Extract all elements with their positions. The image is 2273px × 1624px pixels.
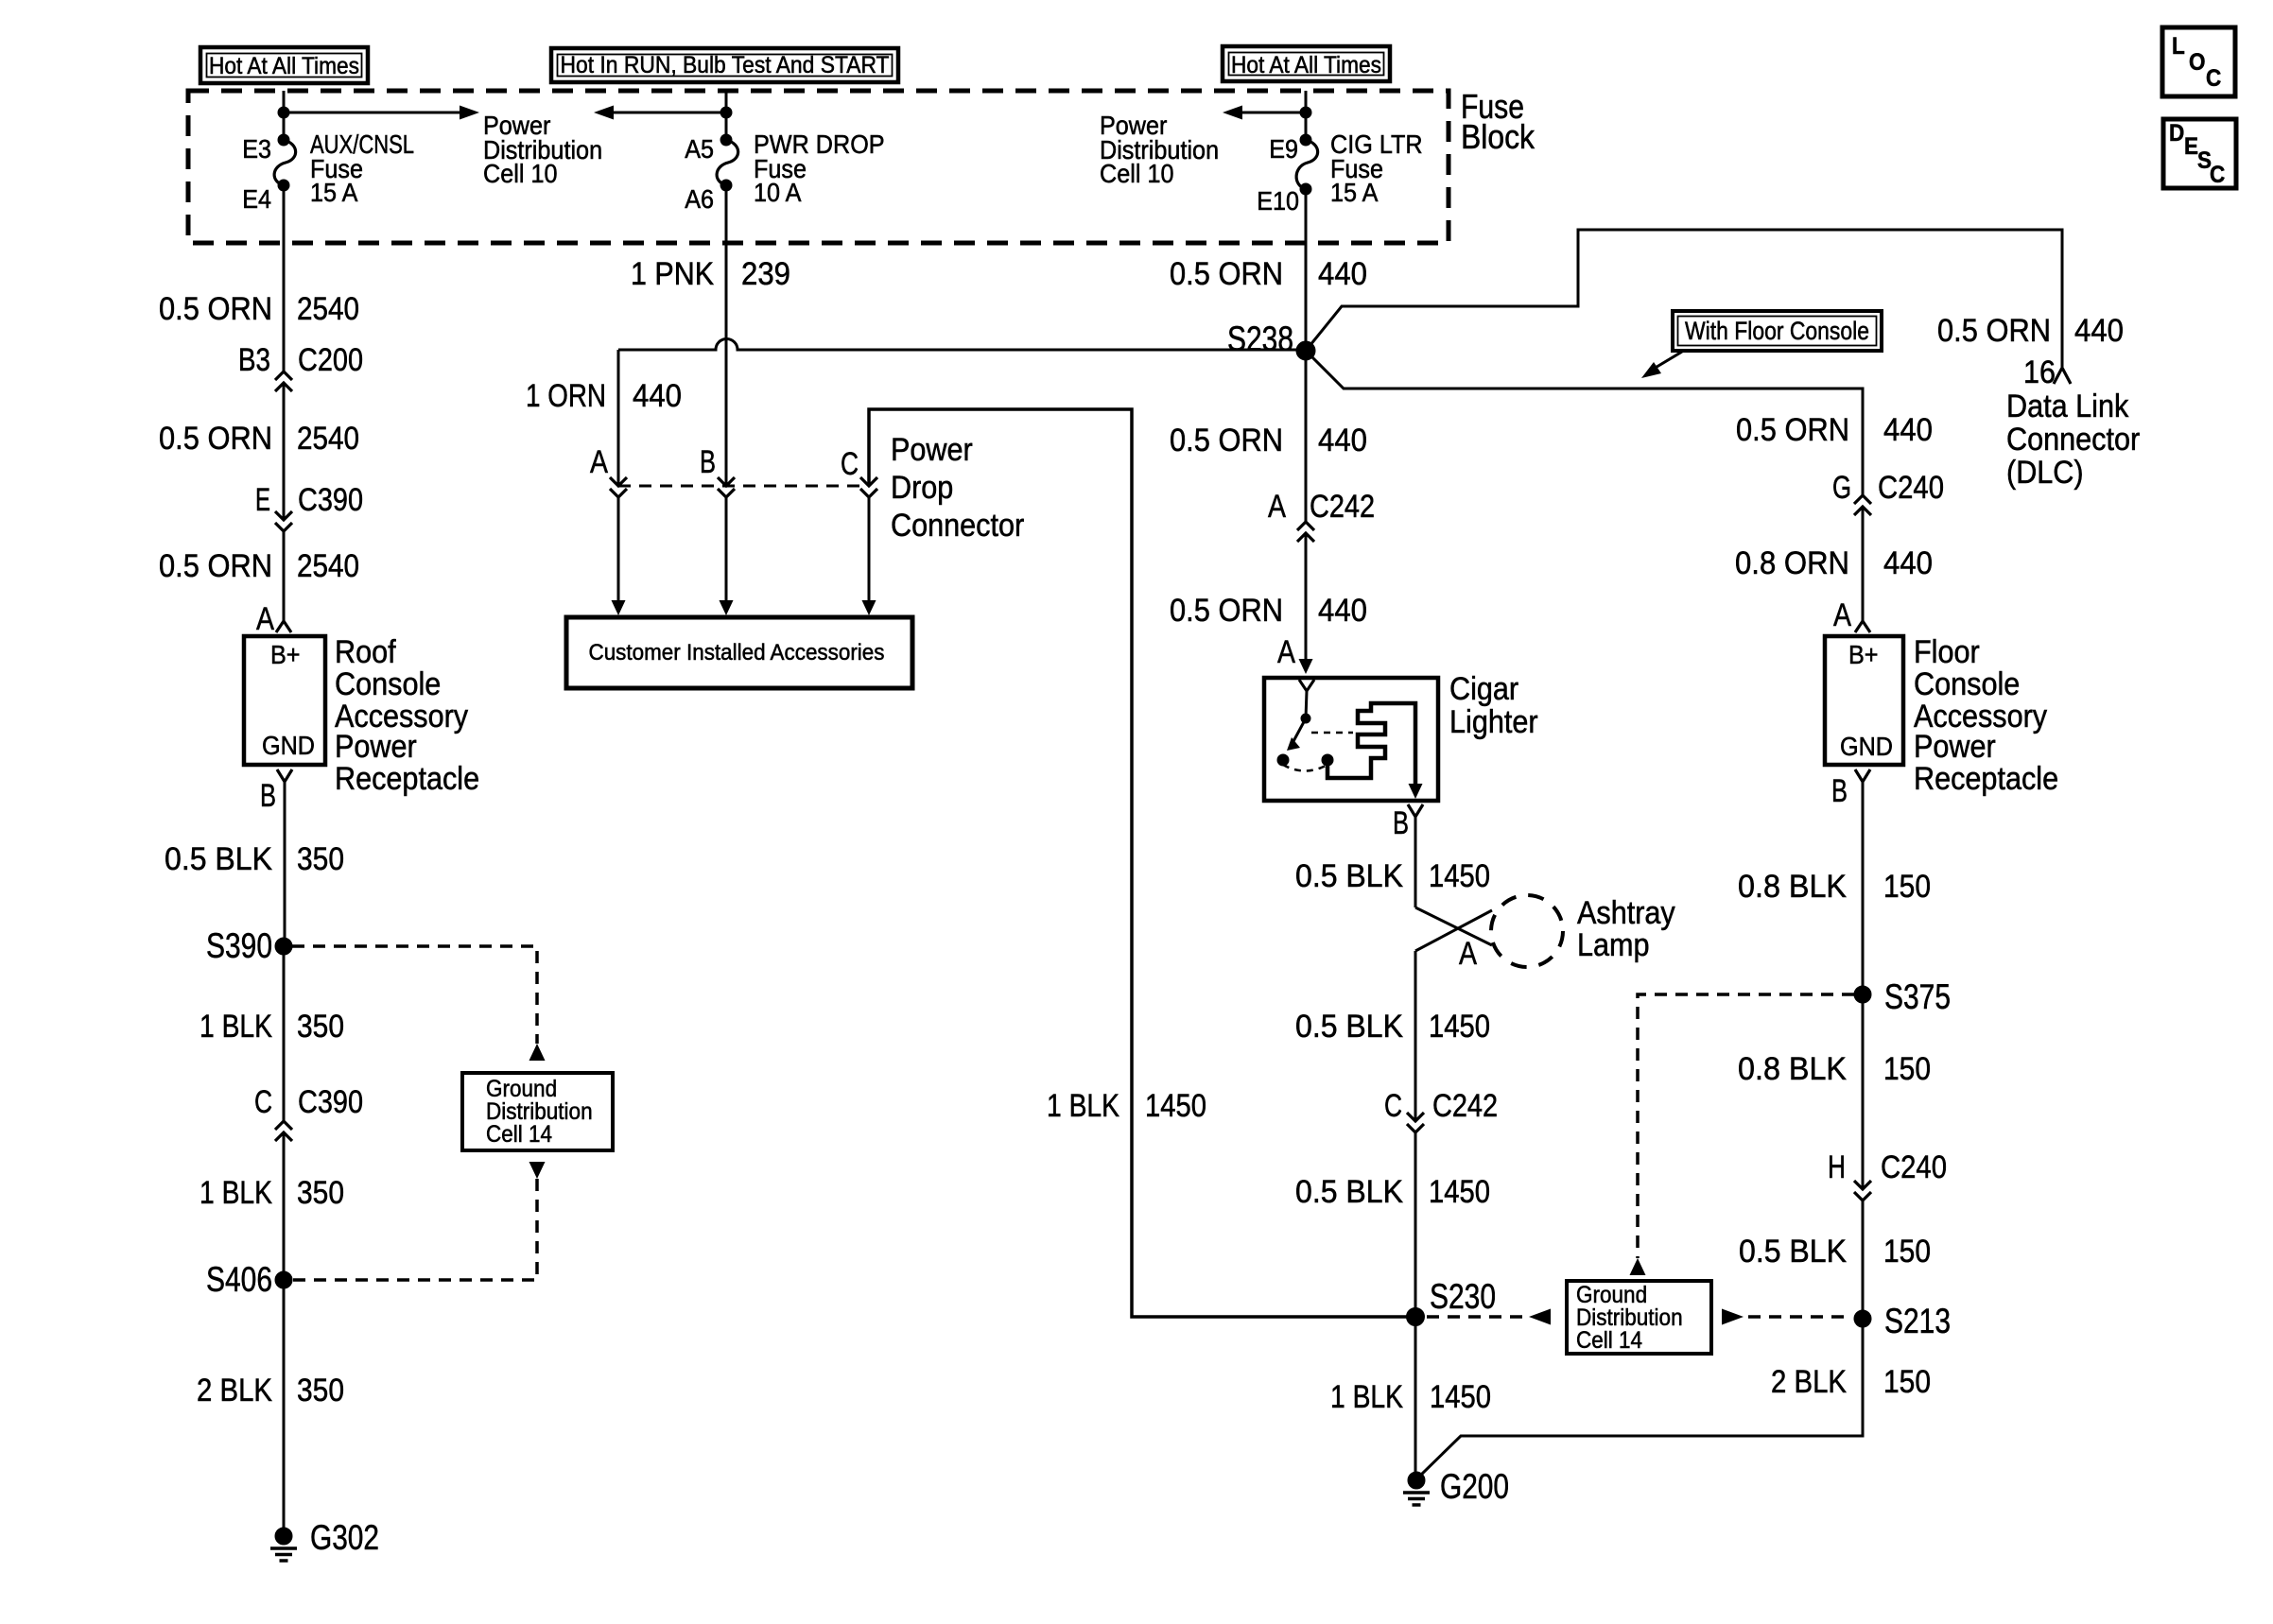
svg-text:A: A xyxy=(1268,489,1286,525)
svg-text:0.8 ORN: 0.8 ORN xyxy=(1735,545,1849,581)
svg-text:1 ORN: 1 ORN xyxy=(526,378,606,414)
wire: With Floor Console branch to C240-G (0.5 ORN 440) xyxy=(1736,412,1933,448)
wire: B drop into Customer Installed Accessories xyxy=(720,497,734,615)
svg-text:B+: B+ xyxy=(270,640,301,669)
svg-text:16: 16 xyxy=(2023,354,2056,390)
reference box: With Floor Console xyxy=(1641,311,1882,378)
svg-text:C: C xyxy=(841,446,859,482)
svg-text:0.5 ORN: 0.5 ORN xyxy=(159,548,272,584)
svg-text:C: C xyxy=(1384,1088,1402,1124)
wire: dashed Ground Distribution to S213 xyxy=(1722,1309,1851,1325)
svg-text:Data Link: Data Link xyxy=(2006,389,2129,424)
label: Floor Console Accessory Power Receptacle xyxy=(1914,634,2058,797)
svg-text:Connector: Connector xyxy=(891,508,1024,544)
svg-text:A: A xyxy=(1833,597,1851,633)
pin A of roof receptacle (male chevron) xyxy=(256,601,291,637)
svg-text:G200: G200 xyxy=(1440,1467,1509,1506)
svg-text:(DLC): (DLC) xyxy=(2006,455,2084,491)
svg-text:Receptacle: Receptacle xyxy=(1914,761,2058,797)
wire: C390-C to S406 (1 BLK 350) xyxy=(200,1132,344,1280)
wire: arrow to Power Distribution (right) xyxy=(284,112,460,114)
label: Cigar Lighter xyxy=(1449,671,1538,740)
svg-text:GND: GND xyxy=(262,731,315,760)
wire: E10 to S238 (0.5 ORN 440) xyxy=(1170,189,1367,351)
switch contact wire xyxy=(1306,691,1307,718)
svg-text:B: B xyxy=(1393,805,1409,841)
svg-text:150: 150 xyxy=(1883,1234,1931,1270)
pin C of Power Drop Connector xyxy=(841,446,877,497)
svg-text:B: B xyxy=(1831,773,1848,809)
reference box: LOC xyxy=(2162,27,2235,96)
svg-text:C: C xyxy=(254,1084,272,1120)
fuse element F3 xyxy=(1296,140,1318,189)
svg-text:350: 350 xyxy=(297,1175,344,1211)
pin E9 xyxy=(1300,134,1311,146)
pin E3 xyxy=(278,134,289,146)
wire: C drop into Customer Installed Accessories xyxy=(862,497,876,615)
wire: dashed border to A5 xyxy=(725,91,728,140)
wire: C242-C to S230 (0.5 BLK 1450) xyxy=(1295,1132,1490,1317)
svg-text:Roof: Roof xyxy=(335,634,396,670)
wire: S238 to C242-A (0.5 ORN 440) xyxy=(1170,351,1367,522)
pin 16 of DLC (male chevron) xyxy=(2023,354,2071,390)
node: junction at F1 feed xyxy=(278,107,289,118)
pin E4 xyxy=(278,180,289,191)
svg-text:S390: S390 xyxy=(206,926,272,965)
svg-text:H: H xyxy=(1828,1149,1846,1185)
svg-text:C240: C240 xyxy=(1878,470,1944,506)
svg-text:0.5 ORN: 0.5 ORN xyxy=(1170,593,1283,629)
svg-text:0.5 ORN: 0.5 ORN xyxy=(159,291,272,327)
label: Data Link Connector (DLC) xyxy=(2006,389,2140,491)
svg-text:350: 350 xyxy=(297,841,344,877)
ground G302 xyxy=(270,1518,379,1561)
wire: receptacle B to S390 (0.5 BLK 350) xyxy=(165,782,344,946)
svg-text:G: G xyxy=(1832,470,1851,506)
connector C240 pin G (in-line, chevrons up) xyxy=(1832,470,1944,515)
svg-text:D: D xyxy=(2169,120,2184,147)
svg-text:C242: C242 xyxy=(1310,489,1375,525)
svg-text:S238: S238 xyxy=(1227,320,1293,358)
svg-text:Hot At All Times: Hot At All Times xyxy=(209,53,359,79)
svg-text:C390: C390 xyxy=(298,482,363,518)
header box: Hot At All Times (left) xyxy=(200,47,368,83)
svg-text:239: 239 xyxy=(741,256,790,292)
svg-text:E3: E3 xyxy=(242,134,271,164)
svg-text:440: 440 xyxy=(1318,593,1367,629)
pin A of Ashtray Lamp xyxy=(1459,936,1477,972)
wire: dashed S375 to Ground Distribution (right) xyxy=(1630,994,1855,1275)
svg-text:150: 150 xyxy=(1883,1364,1931,1400)
svg-text:E9: E9 xyxy=(1269,134,1298,164)
wire: S390 to C390-C (1 BLK 350) xyxy=(200,946,344,1121)
ground G200 xyxy=(1403,1467,1509,1506)
svg-text:Ashtray: Ashtray xyxy=(1577,895,1675,931)
svg-text:S230: S230 xyxy=(1430,1277,1496,1316)
svg-text:1450: 1450 xyxy=(1430,1379,1491,1415)
svg-text:Customer Installed Accessories: Customer Installed Accessories xyxy=(589,640,885,665)
fuse F1 AUX/CNSL 15A xyxy=(242,91,479,214)
wire: E4 to C200 (0.5 ORN 2540) xyxy=(159,185,359,371)
svg-text:E4: E4 xyxy=(242,184,271,214)
svg-text:C: C xyxy=(2206,65,2221,92)
pin E10 xyxy=(1300,183,1311,195)
svg-text:B: B xyxy=(260,778,276,814)
svg-text:B3: B3 xyxy=(238,342,270,378)
pin A of Cigar Lighter xyxy=(1277,634,1295,670)
wire: S375 to C240-H (0.8 BLK 150) xyxy=(1738,994,1931,1189)
svg-text:Power: Power xyxy=(335,729,417,765)
svg-text:1450: 1450 xyxy=(1429,1174,1490,1210)
svg-text:C: C xyxy=(2210,162,2225,188)
reference box: Ground Distribution Cell 14 (left) xyxy=(462,1073,613,1150)
wire: dashed border to E9 xyxy=(1305,91,1308,140)
pin A female chevron inside xyxy=(1299,680,1314,691)
splice S213 xyxy=(1854,1302,1951,1340)
svg-text:E10: E10 xyxy=(1257,186,1299,216)
svg-text:0.5 BLK: 0.5 BLK xyxy=(1295,1174,1403,1210)
wire: C240-H to S213 (0.5 BLK 150) xyxy=(1739,1201,1931,1319)
splice S375 xyxy=(1854,977,1951,1016)
svg-text:0.8 BLK: 0.8 BLK xyxy=(1738,1051,1847,1087)
svg-text:O: O xyxy=(2189,49,2206,76)
svg-text:0.5 BLK: 0.5 BLK xyxy=(1295,858,1403,894)
connector X to Ashtray Lamp xyxy=(1415,907,1492,951)
wire: C240-G to Floor receptacle A (0.8 ORN 440) xyxy=(1735,507,1933,621)
fuse F2 PWR DROP 10A xyxy=(594,91,885,214)
svg-text:0.5 ORN: 0.5 ORN xyxy=(1170,423,1283,458)
wire: floor receptacle B to S375 (0.8 BLK 150) xyxy=(1738,782,1931,994)
svg-text:1 BLK: 1 BLK xyxy=(1047,1088,1119,1124)
svg-text:Drop: Drop xyxy=(891,470,953,506)
svg-text:With Floor Console: With Floor Console xyxy=(1685,317,1869,345)
svg-text:440: 440 xyxy=(1883,412,1933,448)
label: Power Drop Connector xyxy=(891,432,1024,544)
svg-text:1 BLK: 1 BLK xyxy=(1330,1379,1403,1415)
svg-text:B: B xyxy=(700,444,716,480)
wire: arrow to Power Distribution (left) xyxy=(614,112,726,114)
svg-text:0.5 ORN: 0.5 ORN xyxy=(1736,412,1849,448)
header box: Hot At All Times (right) xyxy=(1223,46,1390,81)
wire: A drop into Customer Installed Accessories xyxy=(612,497,626,615)
svg-text:A: A xyxy=(590,444,608,480)
wire: dashed border to E3 xyxy=(283,91,286,140)
node: junction at F3 feed xyxy=(1300,107,1311,118)
svg-text:0.5 ORN: 0.5 ORN xyxy=(159,421,272,457)
wire: A6 to Power Drop Connector B (1 PNK 239) xyxy=(631,185,790,486)
svg-text:Cell 14: Cell 14 xyxy=(1576,1327,1642,1354)
connector C390 pin E (in-line, chevrons down) xyxy=(255,482,363,531)
Power Distribution Cell 10 (right) xyxy=(1100,111,1219,188)
svg-text:L: L xyxy=(2172,33,2185,60)
svg-text:Hot In RUN, Bulb Test And STAR: Hot In RUN, Bulb Test And START xyxy=(561,52,890,78)
svg-text:0.5 ORN: 0.5 ORN xyxy=(1170,256,1283,292)
component: Floor Console Accessory Power Receptacle xyxy=(1825,636,1903,765)
connector C240 pin H (in-line, chevrons down) xyxy=(1828,1149,1947,1201)
component: Cigar Lighter xyxy=(1264,678,1438,801)
svg-text:C200: C200 xyxy=(298,342,363,378)
svg-text:Lamp: Lamp xyxy=(1577,927,1650,963)
wire: dashed Ground Distribution to S406 xyxy=(292,1162,546,1280)
svg-text:2 BLK: 2 BLK xyxy=(197,1373,272,1408)
component: Ashtray Lamp (dashed circle) xyxy=(1491,895,1675,967)
connector C242 pin A (in-line, chevrons up) xyxy=(1268,489,1375,542)
fuse block dashed outline xyxy=(188,91,1449,243)
wire: dashed S390 to Ground Distribution xyxy=(292,946,546,1061)
svg-text:0.5 BLK: 0.5 BLK xyxy=(1295,1009,1403,1045)
connector C242 pin C (in-line, chevrons down) xyxy=(1384,1088,1498,1132)
svg-text:A: A xyxy=(1459,936,1477,972)
svg-text:Receptacle: Receptacle xyxy=(335,761,479,797)
header box: Hot In RUN, Bulb Test And START xyxy=(551,48,898,82)
svg-text:Floor: Floor xyxy=(1914,634,1980,670)
svg-text:Power: Power xyxy=(1914,729,1996,765)
splice S406 xyxy=(206,1260,292,1299)
pin A of Power Drop Connector xyxy=(590,444,627,497)
pin B of Power Drop Connector xyxy=(700,444,735,497)
wire: S238 lower branch to Floor Console column xyxy=(1306,351,1863,495)
svg-text:Cell 14: Cell 14 xyxy=(486,1121,552,1148)
reference box: Ground Distribution Cell 14 (right) xyxy=(1567,1281,1711,1354)
splice S238 xyxy=(1227,320,1315,360)
svg-text:GND: GND xyxy=(1840,732,1893,761)
wire: S238 upper branch to Data Link Connector xyxy=(1306,230,2124,367)
svg-text:440: 440 xyxy=(2074,313,2124,349)
svg-text:2540: 2540 xyxy=(297,421,359,457)
heating element xyxy=(1327,703,1415,784)
svg-text:Cell 10: Cell 10 xyxy=(483,159,558,188)
fuse element F2 xyxy=(717,140,738,185)
svg-text:0.5 BLK: 0.5 BLK xyxy=(165,841,272,877)
wire: Ashtray tap to C242-C (0.5 BLK 1450) xyxy=(1295,951,1490,1121)
svg-text:10 A: 10 A xyxy=(754,178,802,207)
connector: Power Drop Connector dashed plane xyxy=(618,485,869,488)
svg-text:C390: C390 xyxy=(298,1084,363,1120)
wire: C200 to C390 (0.5 ORN 2540) xyxy=(159,383,359,520)
svg-text:1450: 1450 xyxy=(1429,858,1490,894)
svg-text:Lighter: Lighter xyxy=(1449,704,1538,740)
pin B of floor receptacle (female chevron) xyxy=(1831,769,1870,809)
svg-text:S375: S375 xyxy=(1884,977,1951,1016)
svg-text:B+: B+ xyxy=(1848,640,1879,669)
svg-text:440: 440 xyxy=(1318,423,1367,458)
svg-text:2540: 2540 xyxy=(297,291,359,327)
pin A6 xyxy=(720,180,732,191)
wire: Power Drop Connector C ground path to S230 riser xyxy=(869,409,1409,1317)
svg-text:0.5 BLK: 0.5 BLK xyxy=(1739,1234,1847,1270)
svg-text:C242: C242 xyxy=(1432,1088,1498,1124)
svg-text:2540: 2540 xyxy=(297,548,359,584)
svg-text:1 BLK: 1 BLK xyxy=(200,1009,272,1045)
svg-text:E: E xyxy=(255,482,270,518)
wire: S238 branch to A of Power Drop Connector, hop over PNK wire xyxy=(526,339,1297,487)
svg-text:Power: Power xyxy=(891,432,973,468)
splice S230 xyxy=(1407,1277,1497,1326)
svg-text:1 BLK: 1 BLK xyxy=(200,1175,272,1211)
svg-text:440: 440 xyxy=(633,378,682,414)
svg-text:0.8 BLK: 0.8 BLK xyxy=(1738,869,1847,905)
switch arm arrow xyxy=(1293,718,1306,743)
svg-text:A6: A6 xyxy=(685,184,714,214)
svg-text:E: E xyxy=(2184,133,2198,160)
label: Roof Console Accessory Power Receptacle xyxy=(335,634,479,797)
svg-text:S213: S213 xyxy=(1884,1302,1951,1340)
svg-text:Cigar: Cigar xyxy=(1449,671,1518,707)
wire: arrow to Power Distribution (left) xyxy=(1242,112,1306,114)
svg-text:0.5 ORN: 0.5 ORN xyxy=(1937,313,2051,349)
wire: dashed S230 to Ground Distribution (right box) xyxy=(1427,1309,1551,1325)
wire: C242-A to Cigar Lighter A (0.5 ORN 440) xyxy=(1170,533,1367,674)
svg-text:150: 150 xyxy=(1883,1051,1931,1087)
component: Roof Console Accessory Power Receptacle xyxy=(244,636,325,765)
svg-text:A: A xyxy=(1277,634,1295,670)
wire: S230 to G200 (1 BLK 1450) xyxy=(1330,1317,1491,1480)
svg-text:G302: G302 xyxy=(310,1518,379,1557)
splice S390 xyxy=(206,926,292,965)
svg-text:S406: S406 xyxy=(206,1260,272,1299)
svg-text:A5: A5 xyxy=(685,134,714,164)
svg-text:Connector: Connector xyxy=(2006,422,2140,458)
svg-text:1 PNK: 1 PNK xyxy=(631,256,714,292)
svg-text:350: 350 xyxy=(297,1373,344,1408)
svg-text:2 BLK: 2 BLK xyxy=(1771,1364,1847,1400)
svg-text:Cell 10: Cell 10 xyxy=(1100,159,1174,188)
pin A of floor receptacle (male chevron) xyxy=(1833,597,1870,633)
svg-text:1450: 1450 xyxy=(1145,1088,1206,1124)
component: Customer Installed Accessories box xyxy=(566,617,912,688)
wire: C390 to receptacle A (0.5 ORN 2540) xyxy=(159,531,359,621)
connector C390 pin C (in-line, chevrons up) xyxy=(254,1084,363,1141)
svg-text:150: 150 xyxy=(1883,869,1931,905)
fuse element F1 xyxy=(274,140,296,185)
svg-text:Console: Console xyxy=(1914,666,2020,702)
svg-text:350: 350 xyxy=(297,1009,344,1045)
svg-text:Hot At All Times: Hot At All Times xyxy=(1231,52,1381,78)
pin B of Cigar Lighter (female chevron) xyxy=(1393,804,1423,841)
dashed switch linkage xyxy=(1311,732,1353,734)
reference box: DESC xyxy=(2163,119,2236,188)
svg-text:A: A xyxy=(256,601,274,637)
svg-text:440: 440 xyxy=(1318,256,1367,292)
svg-text:C240: C240 xyxy=(1881,1149,1947,1185)
Fuse Block label xyxy=(1461,87,1536,156)
wire: S213 to G200 (2 BLK 150) xyxy=(1418,1319,1931,1477)
svg-text:15 A: 15 A xyxy=(1330,178,1379,207)
svg-text:440: 440 xyxy=(1883,545,1933,581)
svg-text:15 A: 15 A xyxy=(310,178,358,207)
wire: Cigar Lighter B to Ashtray Lamp tap (0.5 BLK 1450) xyxy=(1295,817,1490,907)
svg-text:Console: Console xyxy=(335,666,441,702)
pin B of roof receptacle (female chevron) xyxy=(260,769,292,814)
Power Distribution Cell 10 (left) xyxy=(483,111,602,188)
svg-text:1450: 1450 xyxy=(1429,1009,1490,1045)
wire: S406 to G302 (2 BLK 350) xyxy=(197,1280,344,1536)
fuse F3 CIG LTR 15A xyxy=(1223,91,1423,216)
connector C200 pin B3 (in-line, chevrons up) xyxy=(238,342,363,391)
node: junction at F2 feed xyxy=(720,107,732,118)
pin A5 xyxy=(720,134,732,146)
svg-text:Block: Block xyxy=(1461,117,1536,156)
